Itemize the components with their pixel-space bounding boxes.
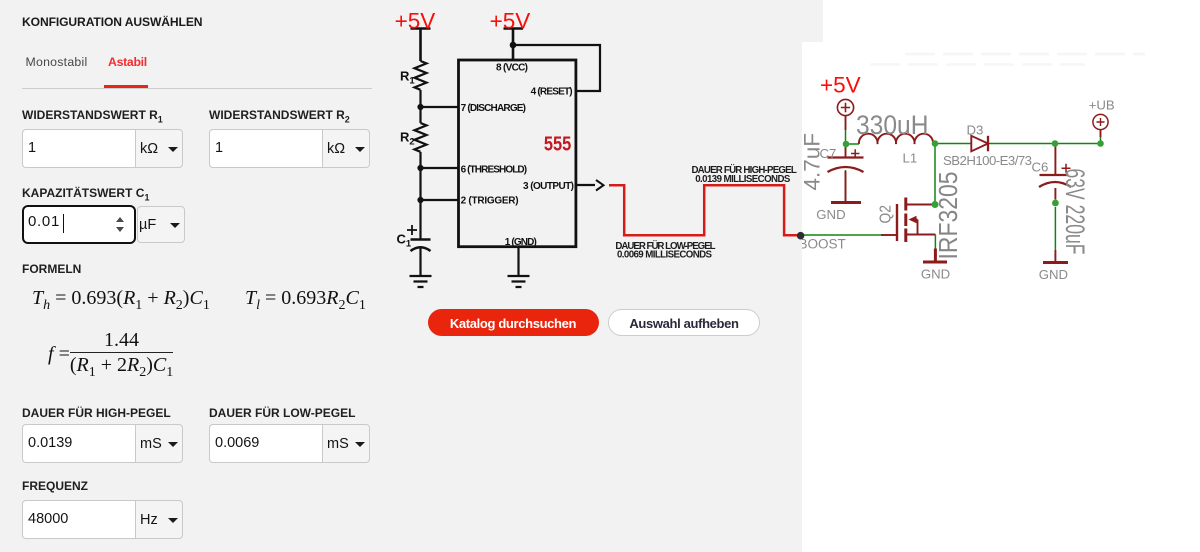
- svg-text:C6: C6: [1032, 160, 1049, 175]
- svg-text:Q2: Q2: [878, 205, 895, 224]
- svg-text:IRF3205: IRF3205: [933, 172, 963, 260]
- svg-text:SB2H100-E3/73: SB2H100-E3/73: [943, 153, 1032, 168]
- svg-text:0.0139 MILLISECONDS: 0.0139 MILLISECONDS: [695, 174, 791, 185]
- svg-text:555: 555: [544, 134, 572, 156]
- svg-text:330uH: 330uH: [856, 110, 929, 140]
- svg-text:8 (VCC): 8 (VCC): [496, 63, 528, 74]
- svg-text:4.7uF: 4.7uF: [800, 133, 825, 191]
- svg-text:7 (DISCHARGE): 7 (DISCHARGE): [461, 103, 526, 114]
- svg-text:+5V: +5V: [395, 8, 436, 33]
- svg-text:D3: D3: [967, 123, 984, 138]
- svg-text:+5V: +5V: [820, 73, 861, 98]
- svg-text:R2: R2: [400, 130, 415, 148]
- svg-text:63V 220uF: 63V 220uF: [1060, 169, 1090, 255]
- svg-text:4 (RESET): 4 (RESET): [531, 87, 573, 98]
- svg-text:BOOST: BOOST: [799, 236, 846, 251]
- svg-text:GND: GND: [921, 267, 950, 282]
- svg-text:+5V: +5V: [490, 8, 531, 33]
- svg-text:2 (TRIGGER): 2 (TRIGGER): [461, 195, 519, 206]
- svg-text:6 (THRESHOLD): 6 (THRESHOLD): [461, 165, 527, 176]
- svg-text:3 (OUTPUT): 3 (OUTPUT): [523, 181, 574, 192]
- svg-text:1 (GND): 1 (GND): [505, 237, 537, 248]
- svg-text:0.0069 MILLISECONDS: 0.0069 MILLISECONDS: [617, 250, 713, 261]
- svg-text:GND: GND: [816, 207, 845, 222]
- svg-text:C1: C1: [397, 232, 412, 250]
- svg-text:R1: R1: [400, 69, 415, 87]
- svg-text:L1: L1: [903, 151, 918, 166]
- svg-text:GND: GND: [1039, 267, 1068, 282]
- svg-text:+UB: +UB: [1089, 98, 1115, 113]
